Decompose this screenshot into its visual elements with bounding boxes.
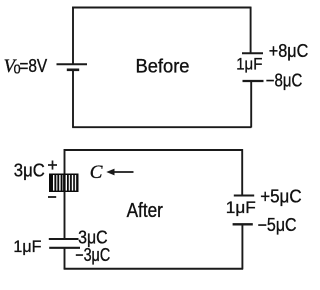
charge label -8uC <box>266 71 303 91</box>
label C (capacitor name) <box>90 162 103 183</box>
capacitor C body (hatched box) <box>49 174 79 193</box>
label V0=8V <box>4 56 48 77</box>
svg-text:Before: Before <box>136 56 190 78</box>
svg-text:C: C <box>90 162 103 183</box>
wire: top side of Before loop <box>72 7 251 9</box>
wire: bottom side of After loop <box>64 268 243 270</box>
wire: top side of After loop <box>64 149 243 151</box>
svg-text:−8μC: −8μC <box>266 71 303 91</box>
label Before <box>136 56 190 78</box>
svg-text:3μC: 3μC <box>14 161 45 181</box>
charge label +8uC <box>269 41 309 61</box>
charge label 3uC (capacitor C) <box>14 161 45 181</box>
svg-text:=8V: =8V <box>19 56 47 76</box>
charge label +5uC <box>260 186 301 206</box>
charge label 3uC (capacitor C2 top plate) <box>78 228 108 248</box>
capacitor C1 bottom plate <box>243 80 264 82</box>
capacitor C3 top plate <box>234 195 254 197</box>
wire: left side middle segment (capacitor C to capacitor C2) <box>64 192 66 240</box>
value label 1uF (capacitor C1) <box>236 55 262 74</box>
value label 1uF (capacitor C2) <box>13 237 41 256</box>
battery V0 long plate <box>57 63 88 65</box>
wire: left side lower segment (capacitor C2 to bottom corner) <box>64 248 66 269</box>
wire: left side upper segment (top corner to battery) <box>72 7 74 64</box>
svg-text:+8μC: +8μC <box>269 41 309 61</box>
capacitor C2 bottom plate <box>49 247 80 249</box>
capacitor C3 bottom plate <box>233 223 253 225</box>
svg-text:+5μC: +5μC <box>260 186 301 206</box>
svg-text:1μF: 1μF <box>13 237 41 256</box>
svg-text:−3μC: −3μC <box>75 245 110 265</box>
battery V0 short plate <box>67 69 79 72</box>
wire: right side upper segment (top corner to capacitor C1) <box>250 7 252 53</box>
arrow pointing left to capacitor C <box>106 169 133 176</box>
wire: right side upper segment (top corner to capacitor C3) <box>241 149 243 195</box>
charge label -5uC <box>258 215 297 235</box>
plus polarity mark of capacitor C <box>48 161 57 170</box>
svg-text:After: After <box>127 200 164 222</box>
wire: left side lower segment (battery to bottom corner) <box>72 71 74 128</box>
value label 1uF (capacitor C3) <box>226 198 256 217</box>
charge label -3uC (capacitor C2 bottom plate) <box>75 245 110 265</box>
svg-text:1μF: 1μF <box>226 198 256 217</box>
capacitor C1 top plate <box>242 52 263 54</box>
capacitor C2 top plate <box>49 238 79 240</box>
wire: right side lower segment (capacitor C1 to bottom corner) <box>250 82 252 128</box>
minus polarity mark of capacitor C <box>48 196 56 198</box>
svg-text:1μF: 1μF <box>236 55 262 74</box>
wire: bottom side of Before loop <box>72 126 251 128</box>
wire: left side upper segment (top corner to capacitor C) <box>64 149 66 174</box>
label After <box>127 200 164 222</box>
wire: right side lower segment (capacitor C3 to bottom corner) <box>241 225 243 270</box>
svg-text:−5μC: −5μC <box>258 215 297 235</box>
